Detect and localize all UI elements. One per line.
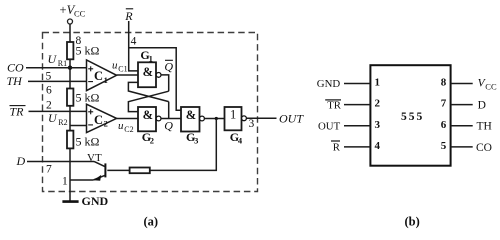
- svg-text:1: 1: [230, 108, 236, 122]
- node UR1 junction dot: [68, 66, 72, 70]
- svg-text:C: C: [94, 69, 103, 83]
- svg-text:4: 4: [375, 140, 381, 152]
- bubble G3 output: [200, 116, 205, 121]
- label Q-bar: [164, 60, 173, 74]
- svg-text:3: 3: [375, 119, 381, 131]
- wire Vcc to R1: [69, 24, 71, 42]
- wire G3 output down to base resistor: [150, 119, 217, 171]
- svg-text:Q: Q: [164, 60, 173, 74]
- wire C1 out to G1: [117, 74, 138, 76]
- svg-text:CC: CC: [74, 9, 86, 19]
- svg-text:C1: C1: [118, 65, 127, 74]
- svg-text:1: 1: [375, 77, 381, 89]
- pin 5 wire: [451, 146, 473, 148]
- wire Q to G3: [161, 118, 181, 120]
- svg-text:4: 4: [238, 135, 243, 145]
- svg-text:3: 3: [249, 118, 255, 130]
- svg-text:(a): (a): [144, 215, 159, 229]
- IC 555 package body: [370, 65, 450, 166]
- pin 3 wire: [344, 125, 370, 127]
- svg-text:1: 1: [104, 75, 108, 85]
- nand gate G3: [181, 107, 200, 132]
- pin 4 wire: [344, 146, 370, 148]
- svg-text:1: 1: [62, 176, 68, 188]
- label G2: [142, 130, 154, 146]
- svg-text:R: R: [124, 9, 133, 23]
- svg-text:4: 4: [131, 36, 137, 48]
- svg-text:TR: TR: [10, 105, 25, 119]
- wire G1 out to cross: [161, 75, 169, 91]
- wire R1 to R2: [69, 59, 71, 88]
- svg-text:3: 3: [194, 135, 198, 145]
- svg-text:C: C: [94, 113, 103, 127]
- nand gate G1: [138, 62, 156, 87]
- svg-text:(b): (b): [405, 215, 420, 229]
- svg-text:5: 5: [441, 140, 447, 152]
- svg-text:2: 2: [150, 135, 154, 145]
- wire D pin7 to collector: [27, 161, 94, 163]
- Vcc terminal circle: [68, 19, 73, 24]
- svg-text:u: u: [118, 120, 124, 132]
- svg-text:5 kΩ: 5 kΩ: [76, 135, 100, 149]
- svg-text:CO: CO: [7, 61, 24, 75]
- label TR with overbar: [10, 105, 26, 119]
- wire C2 out to G2: [117, 118, 138, 120]
- svg-text:&: &: [143, 108, 153, 122]
- label G1: [140, 48, 152, 64]
- transistor VT: [70, 161, 105, 180]
- svg-text:C2: C2: [124, 125, 133, 134]
- svg-text:6: 6: [441, 119, 447, 131]
- svg-text:R1: R1: [58, 59, 67, 68]
- label G3: [186, 130, 198, 146]
- label UR2: [48, 111, 68, 127]
- wire TR pin2: [29, 110, 87, 112]
- svg-text:7: 7: [441, 98, 447, 110]
- wire cross diagonal G1-to-G2: [128, 91, 168, 111]
- op-amp comparator C2: [87, 104, 117, 132]
- resistor R3: [67, 131, 73, 149]
- svg-text:2: 2: [46, 100, 52, 112]
- pin label Vcc: [478, 77, 497, 91]
- svg-text:555: 555: [401, 111, 424, 123]
- wire Q up to cross: [168, 102, 170, 119]
- junction node G3 output: [215, 117, 218, 120]
- label G4: [230, 130, 243, 146]
- svg-text:7: 7: [46, 164, 52, 176]
- ground bar: [62, 200, 78, 203]
- svg-text:R2: R2: [58, 118, 67, 127]
- svg-text:CC: CC: [485, 82, 497, 92]
- svg-text:&: &: [186, 108, 196, 122]
- svg-text:GND: GND: [82, 194, 109, 208]
- resistor R1: [67, 42, 73, 59]
- svg-text:5 kΩ: 5 kΩ: [76, 91, 100, 105]
- pin 2 wire: [344, 104, 370, 106]
- svg-text:8: 8: [441, 77, 447, 89]
- svg-text:TR: TR: [327, 99, 342, 111]
- svg-text:U: U: [48, 52, 58, 66]
- wire R-bar down to G1 input: [129, 21, 138, 71]
- bubble G1 output: [156, 73, 161, 78]
- svg-text:D: D: [478, 100, 486, 112]
- op-amp comparator C1: [87, 60, 117, 91]
- wire base resistor to VT base: [107, 169, 129, 171]
- label uC1: [112, 60, 128, 74]
- +Vcc label: [60, 3, 86, 19]
- bubble G2 output: [156, 116, 161, 121]
- svg-text:GND: GND: [317, 78, 341, 90]
- dashed IC boundary box: [43, 33, 258, 192]
- pin 1 wire: [344, 83, 370, 85]
- pin label TR-bar: [325, 99, 342, 111]
- svg-text:2: 2: [375, 98, 381, 110]
- svg-text:6: 6: [46, 84, 52, 96]
- wire divider node to C2 minus: [70, 125, 87, 127]
- wire R2 to R3: [69, 106, 71, 131]
- svg-text:5 kΩ: 5 kΩ: [76, 44, 100, 58]
- pin label R-bar: [331, 141, 341, 154]
- wire G3 to G4: [204, 118, 224, 120]
- resistor base: [130, 168, 150, 174]
- svg-text:OUT: OUT: [318, 121, 341, 133]
- svg-text:TH: TH: [7, 74, 24, 88]
- wire TH pin6: [28, 80, 87, 82]
- wire OUT pin3: [246, 117, 276, 119]
- svg-text:D: D: [16, 154, 26, 168]
- bubble G4 output: [242, 116, 247, 121]
- resistor R2: [67, 89, 73, 106]
- svg-text:2: 2: [104, 119, 108, 129]
- pin 7 wire: [451, 104, 473, 106]
- label uC2: [118, 120, 134, 134]
- buffer gate G4: [225, 107, 242, 130]
- pin 8 wire: [451, 83, 473, 85]
- wire R3 to GND: [69, 148, 71, 201]
- label UR1: [48, 52, 68, 68]
- svg-text:OUT: OUT: [279, 112, 304, 126]
- svg-text:Q: Q: [164, 119, 173, 133]
- svg-text:u: u: [112, 60, 118, 72]
- pin 6 wire: [451, 125, 473, 127]
- nand gate G2: [138, 107, 156, 131]
- svg-text:1: 1: [149, 54, 153, 64]
- svg-text:&: &: [143, 65, 153, 79]
- svg-text:TH: TH: [477, 121, 492, 133]
- svg-text:U: U: [48, 111, 58, 125]
- svg-text:R: R: [333, 142, 341, 154]
- label R-bar top: [124, 9, 133, 23]
- wire CO pin5: [26, 67, 87, 69]
- svg-text:CO: CO: [476, 142, 492, 154]
- wire R-bar across to G3: [129, 48, 181, 111]
- wire cross diagonal G2-to-G1: [128, 82, 168, 101]
